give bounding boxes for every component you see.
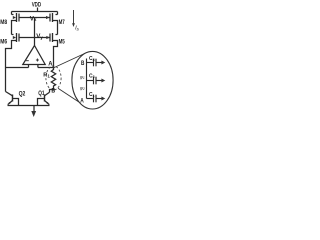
svg-text:B: B	[81, 60, 85, 67]
svg-text:C4: C4	[89, 56, 95, 62]
svg-text:C1: C1	[89, 92, 95, 98]
svg-text:Q2: Q2	[19, 91, 26, 98]
svg-text:Q1: Q1	[38, 90, 45, 97]
svg-text:Vx: Vx	[30, 15, 37, 22]
svg-text:M5: M5	[59, 39, 65, 46]
svg-text:A: A	[48, 61, 53, 68]
svg-text:C3: C3	[89, 74, 95, 80]
svg-text:M8: M8	[0, 19, 7, 26]
svg-text:M6: M6	[0, 39, 7, 46]
svg-text:R1: R1	[43, 72, 50, 78]
svg-text:A: A	[80, 97, 84, 104]
svg-text:VDD: VDD	[32, 2, 42, 9]
svg-text:B: B	[51, 88, 55, 95]
svg-text:φ1: φ1	[80, 74, 85, 80]
svg-text:M7: M7	[59, 19, 65, 26]
svg-text:φ2: φ2	[80, 86, 85, 92]
svg-text:Vy: Vy	[36, 33, 43, 40]
